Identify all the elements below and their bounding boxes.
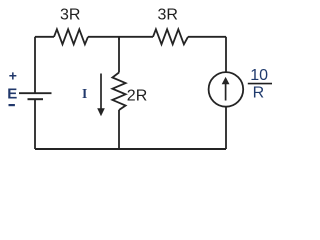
label minus (battery negative) xyxy=(9,104,15,106)
battery E short plate (negative) xyxy=(28,98,44,100)
svg-text:E: E xyxy=(7,86,17,103)
wire left vertical lower (battery to bottom corner) xyxy=(34,99,36,149)
resistor R1 3R zigzag xyxy=(54,29,88,44)
wire bottom horizontal xyxy=(35,148,226,150)
fraction bar of 10/R xyxy=(248,83,272,85)
current arrow I shaft xyxy=(100,74,102,110)
wire top-left horizontal (node A to R1) xyxy=(35,36,54,38)
svg-text:R: R xyxy=(253,85,265,102)
wire left vertical upper (corner to battery) xyxy=(34,37,36,93)
wire middle vertical lower (R3 to bottom) xyxy=(118,110,120,149)
resistor R3 2R vertical zigzag xyxy=(112,73,125,111)
wire middle vertical upper (top junction to R3) xyxy=(118,37,120,73)
svg-text:3R: 3R xyxy=(158,7,178,24)
battery E long plate (positive) xyxy=(19,92,52,94)
svg-text:+: + xyxy=(9,68,17,84)
svg-text:3R: 3R xyxy=(60,7,80,24)
wire right vertical lower (current source to bottom corner) xyxy=(225,107,227,149)
current source arrow head xyxy=(222,77,230,84)
current source arrow shaft xyxy=(225,83,227,101)
svg-text:I: I xyxy=(82,86,87,101)
current source U1 circle xyxy=(209,72,244,107)
svg-text:10: 10 xyxy=(250,67,268,84)
current arrow I head xyxy=(97,108,105,116)
node junction middle top xyxy=(118,37,120,40)
wire right vertical upper (corner to current source) xyxy=(225,37,227,72)
resistor R2 3R zigzag xyxy=(153,29,188,44)
wire top-right horizontal (R2 to right corner) xyxy=(188,36,226,38)
svg-text:2R: 2R xyxy=(127,87,147,104)
wire top-middle horizontal (R1 to R2) xyxy=(88,36,153,38)
